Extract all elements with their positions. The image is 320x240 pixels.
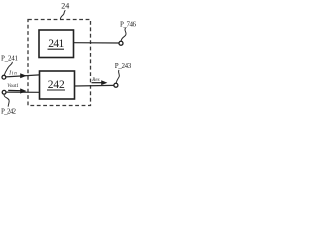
svg-text:Vout1: Vout1 [7,84,18,89]
leader for P_243 [116,70,119,83]
annotation arrowhead [101,80,107,85]
svg-text:Îin: Îin [8,70,17,76]
dashed block boundary 24 [28,20,91,106]
block 242 [40,71,75,99]
svg-text:242: 242 [48,79,65,91]
svg-text:Res: Res [91,78,99,83]
svg-text:P_243: P_243 [115,62,132,70]
terminal P_243 [114,83,118,87]
svg-text:241: 241 [48,38,64,50]
svg-text:P_242: P_242 [1,108,17,116]
wire P_241 into 242 [6,75,40,77]
svg-text:P_746: P_746 [120,20,137,28]
underline 241 [48,48,65,50]
block 241 [39,30,74,58]
arrowhead on P_242 wire [8,89,21,91]
leader for 24 [60,10,65,19]
leader for P_746 [121,28,126,41]
terminal P_241 [2,75,6,79]
terminal P_242 [2,90,6,94]
wire P_242 into 242 [6,91,40,93]
arrowhead on P_241 wire [20,73,26,78]
svg-text:P_241: P_241 [1,55,19,63]
annotation arrow on output wire [92,82,103,84]
wire 242 output to P_243 [75,84,115,87]
wire 241 output to P_746 [74,42,119,44]
underline 242 [47,89,65,91]
svg-text:24: 24 [61,1,69,10]
terminal P_746 [119,41,123,45]
leader for P_241 [4,62,12,75]
leader for P_242 [4,95,9,107]
